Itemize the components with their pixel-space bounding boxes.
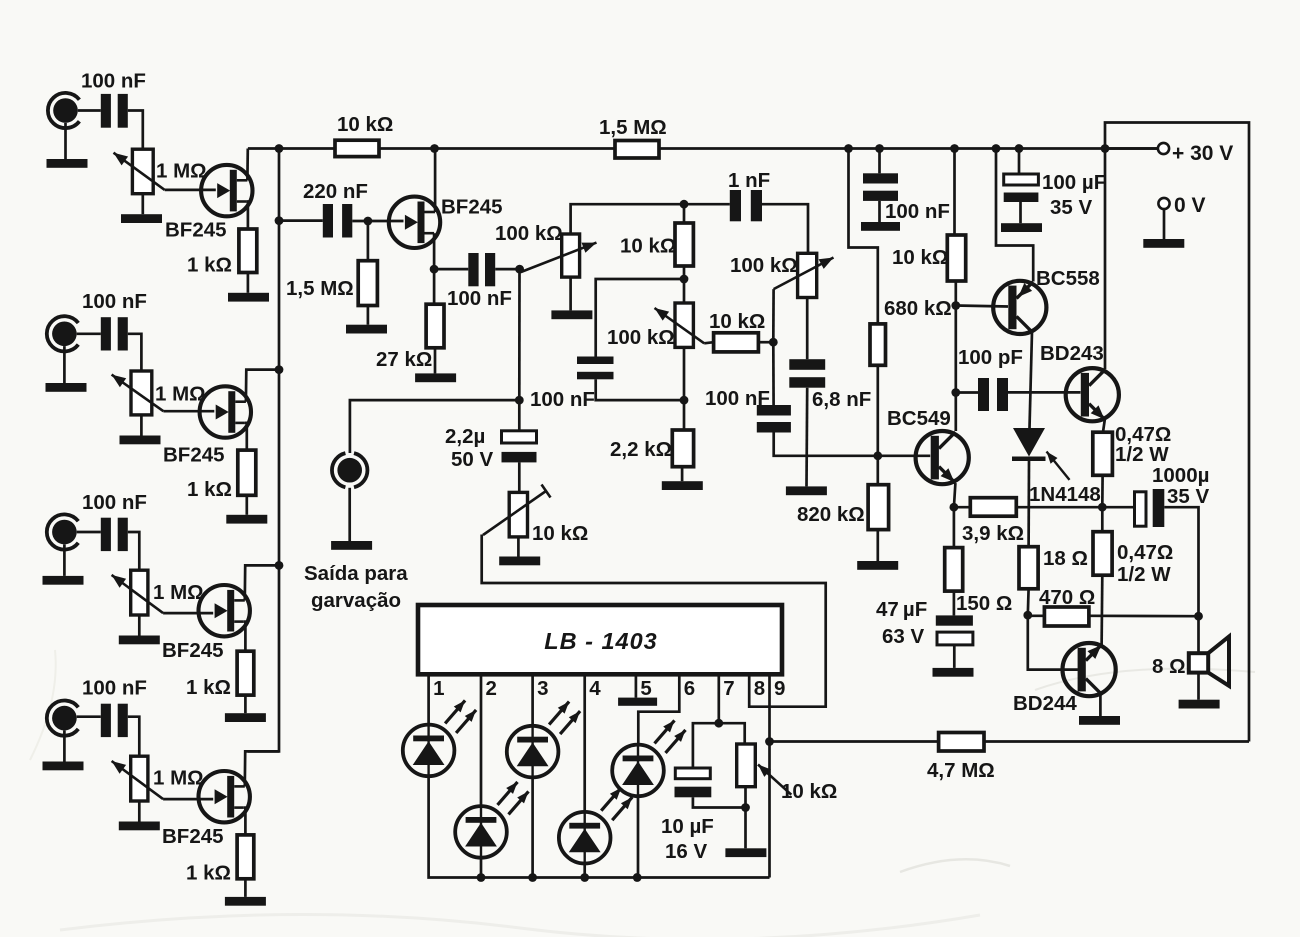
wire P6 wiper to R10 <box>704 342 713 343</box>
wire BD244 collector to ground <box>1099 693 1102 717</box>
capacitor C1 100 nF (input ch1) <box>101 94 128 128</box>
wire Q4 source to R4 <box>244 808 246 835</box>
wire C4 to potentiometer P4 <box>128 717 140 757</box>
node A (tone network input) <box>515 265 524 274</box>
node (LED4 bus) <box>580 873 589 882</box>
ground (jack J3) <box>43 576 84 585</box>
wire jack J4 to ground <box>63 730 66 761</box>
capacitor C14 100 nF (rail decoupling) <box>863 149 898 223</box>
wire BC558 collector to diode <box>1030 332 1033 428</box>
node B (10k/1nF junction) <box>680 200 689 209</box>
ground (R4) <box>225 897 266 906</box>
svg-text:470 Ω: 470 Ω <box>1039 586 1095 609</box>
diode D6 1N4148 <box>1012 428 1046 461</box>
IC U1 LB-1403 body <box>418 605 782 674</box>
resistor R20 0,47 Ω (bottom) <box>1093 532 1112 576</box>
wire R9 to node C <box>683 266 686 303</box>
wire LED5 to bus <box>637 796 640 877</box>
potentiometer P5 100 kΩ (volume) body <box>562 234 580 277</box>
svg-text:6,8 nF: 6,8 nF <box>812 388 871 411</box>
ground (P8) <box>499 557 540 566</box>
wire rail R5 to R6 <box>379 147 615 150</box>
wire LED1 to LED common bus <box>429 776 481 877</box>
wire Q5 drain to rail <box>434 149 437 213</box>
wire pin7 node to P9 <box>719 723 745 744</box>
transistor Q3 BF245 (JFET ch3) <box>199 585 250 636</box>
node (BC558 base) <box>951 301 960 310</box>
svg-text:3: 3 <box>537 677 548 700</box>
wire C13 to node H <box>693 797 746 807</box>
wire node E down to C11 <box>772 342 775 405</box>
svg-text:garvação: garvação <box>311 589 401 612</box>
wire +30V rail to terminal <box>1105 147 1158 150</box>
transistor Q5 BF245 (mixer stage) <box>389 197 440 248</box>
capacitor C8 1 nF <box>730 190 762 221</box>
resistor R6 1,5 MΩ (rail) <box>615 141 659 159</box>
potentiometer P1 wiper arrow <box>114 153 165 190</box>
wire C8 to P7 <box>762 204 808 253</box>
wire Q2 drain to mix bus <box>246 370 279 402</box>
node J (output node) <box>1098 503 1107 512</box>
wire P3 wiper to Q3 gate <box>163 612 213 615</box>
annotation arrow (1N4148) <box>1047 452 1070 480</box>
resistor R12 680 kΩ <box>870 324 886 365</box>
wire jack J2 to ground <box>63 346 66 383</box>
svg-text:100 kΩ: 100 kΩ <box>730 254 798 277</box>
wire node to R16 150 <box>953 507 956 547</box>
wire P9 to node H <box>744 787 747 808</box>
capacitor C10 6,8 nF <box>789 359 825 388</box>
ground (node H) <box>725 848 766 857</box>
svg-text:150 Ω: 150 Ω <box>956 592 1012 615</box>
wire rail to BC558 emitter <box>996 149 1033 282</box>
capacitor C2 100 nF (input ch2) <box>101 317 128 350</box>
wire C1 to potentiometer P1 <box>128 111 143 150</box>
potentiometer P1 1 MΩ body <box>132 149 153 194</box>
svg-text:0 V: 0 V <box>1174 194 1206 217</box>
ground (P3) <box>119 636 160 645</box>
ground (P2) <box>120 436 161 445</box>
potentiometer P4 1 MΩ body <box>131 756 148 801</box>
svg-text:2,2 kΩ: 2,2 kΩ <box>610 438 672 461</box>
svg-text:35 V: 35 V <box>1167 485 1209 508</box>
wire P7 to C10 <box>806 298 809 360</box>
wire P5 top to 1nF row <box>571 204 684 234</box>
ground (R3) <box>225 713 266 722</box>
svg-text:4,7 MΩ: 4,7 MΩ <box>927 759 995 782</box>
svg-text:BF245: BF245 <box>165 219 227 242</box>
potentiometer P7 wiper arrow <box>774 258 834 290</box>
LED D5 <box>612 720 685 796</box>
svg-text:27 kΩ: 27 kΩ <box>376 348 432 371</box>
svg-text:1 MΩ: 1 MΩ <box>156 160 207 183</box>
ground (0 V) <box>1143 239 1184 248</box>
resistor R18 470 Ω <box>1044 607 1089 626</box>
wire R20 to BD244 emitter <box>1100 575 1103 646</box>
wire pin 6 to LED5 <box>638 674 679 744</box>
potentiometer P3 1 MΩ body <box>131 570 148 615</box>
capacitor C17 100 uF 35 V (electrolytic) <box>1004 149 1039 224</box>
node (Q3 drain / bus) <box>275 561 284 570</box>
wire node H to ground <box>744 808 747 849</box>
svg-text:BF245: BF245 <box>441 196 503 219</box>
capacitor C16 47 uF 63 V (electrolytic) <box>936 615 973 668</box>
wire R8 to ground <box>434 348 437 374</box>
wire jack J2 to C2 <box>77 332 101 335</box>
wire R18 to speaker node <box>1089 614 1199 617</box>
transistor Q9 BD244 <box>1063 643 1116 696</box>
svg-text:100 nF: 100 nF <box>82 677 147 700</box>
svg-text:63 V: 63 V <box>882 625 924 648</box>
potentiometer P3 wiper arrow <box>112 575 164 613</box>
wire C3 to potentiometer P3 <box>128 532 140 570</box>
svg-text:100 kΩ: 100 kΩ <box>495 222 563 245</box>
ground (R11) <box>662 481 703 490</box>
svg-text:10 kΩ: 10 kΩ <box>532 522 588 545</box>
wire rail to R12 680k (jog) <box>849 149 878 324</box>
input jack J2 (RCA) <box>47 316 78 351</box>
node (bus / C5 coupling) <box>275 216 284 225</box>
resistor R13 10 kΩ (collector load) <box>947 235 965 281</box>
svg-text:100 µF: 100 µF <box>1042 171 1106 194</box>
ground (C16) <box>933 668 974 677</box>
transistor Q6 BC549 <box>916 431 969 484</box>
node E <box>769 338 778 347</box>
svg-text:Saída para: Saída para <box>304 562 408 585</box>
svg-text:LB - 1403: LB - 1403 <box>544 628 658 654</box>
potentiometer P7 100 kΩ (bass pot) body <box>798 253 817 297</box>
terminal 0 V <box>1158 198 1169 209</box>
wire C12 to P8 <box>518 462 521 492</box>
wire pin7 node to C13 <box>693 723 719 768</box>
wire jack J1 to C1 <box>78 109 101 112</box>
svg-text:50 V: 50 V <box>451 448 493 471</box>
wire rail R6 to +30V terminal <box>659 147 1158 150</box>
wire P8 to ground <box>517 537 520 557</box>
terminal +30 V <box>1158 143 1169 154</box>
wire diode cathode to R17 <box>1027 461 1030 547</box>
wire R17 to node I <box>1026 589 1029 615</box>
wire R15 to output node <box>1016 506 1134 509</box>
potentiometer P8 wiper (trimmer) <box>483 485 551 536</box>
ground (pin 5) <box>618 698 657 706</box>
wire node A down to node G <box>518 269 521 400</box>
node (LED5 bus) <box>633 873 642 882</box>
wire BD243 emitter to R19 <box>1103 420 1105 433</box>
wire C7 to node A <box>495 268 519 271</box>
node (BC558 emitter feed / rail) <box>992 144 1001 153</box>
ground (speaker) <box>1179 700 1220 709</box>
svg-text:7: 7 <box>723 677 734 700</box>
capacitor C15 100 pF <box>978 378 1008 411</box>
node (feedback node) <box>950 503 959 512</box>
wire node I to R18 <box>1028 614 1045 617</box>
resistor R4 1 kΩ (source ch4) <box>237 835 254 879</box>
capacitor C6 220 nF <box>323 204 353 238</box>
resistor R7 1,5 MΩ (gate) <box>358 261 377 306</box>
node (680k feed / rail) <box>844 144 853 153</box>
wire R10 to node E <box>758 341 773 344</box>
wire pin 7 down <box>717 674 720 723</box>
svg-text:10 kΩ: 10 kΩ <box>781 780 837 803</box>
node (Q2 drain / bus) <box>275 365 284 374</box>
wire mixer drain bus (vertical) <box>248 149 279 752</box>
svg-text:0,47Ω: 0,47Ω <box>1117 541 1173 564</box>
svg-text:1 MΩ: 1 MΩ <box>153 767 204 790</box>
resistor R15 3,9 kΩ <box>970 498 1016 517</box>
wire speaker to ground <box>1197 673 1200 700</box>
wire P1 wiper to Q1 gate <box>165 189 216 192</box>
node (pin 7) <box>714 719 723 728</box>
svg-text:BD244: BD244 <box>1013 692 1077 715</box>
wire R11 to ground <box>681 467 684 482</box>
wire C2 to potentiometer P2 <box>128 334 142 371</box>
potentiometer P2 wiper arrow <box>112 375 164 412</box>
potentiometer P9 10 kΩ (VU cal) body <box>737 744 756 787</box>
svg-text:1000µ: 1000µ <box>1152 464 1209 487</box>
node G (record tap) <box>515 396 524 405</box>
resistor R14 820 kΩ <box>868 485 889 530</box>
wire bus to C6 <box>279 219 323 222</box>
transistor Q1 BF245 (JFET ch1) <box>201 165 252 216</box>
wire pin 2 to LED2 <box>480 674 483 806</box>
wire record jack to ground <box>348 488 351 541</box>
svg-text:18 Ω: 18 Ω <box>1043 547 1088 570</box>
potentiometer P9 wiper arrow <box>758 765 791 795</box>
svg-text:BF245: BF245 <box>162 825 224 848</box>
wire R3 to ground <box>244 695 247 713</box>
svg-text:1 MΩ: 1 MΩ <box>153 581 204 604</box>
resistor R16 150 Ω <box>945 548 963 592</box>
wire pin 3 to LED3 <box>531 674 534 726</box>
wire R21 to right bus <box>984 740 1249 743</box>
resistor R5 10 kΩ (rail) <box>335 140 379 156</box>
svg-text:BD243: BD243 <box>1040 342 1104 365</box>
ground (R7) <box>346 325 387 334</box>
svg-text:1N4148: 1N4148 <box>1029 483 1101 506</box>
svg-text:5: 5 <box>640 677 651 700</box>
svg-text:1,5 MΩ: 1,5 MΩ <box>286 277 354 300</box>
svg-text:BF245: BF245 <box>162 639 224 662</box>
potentiometer P5 wiper arrow <box>521 243 597 272</box>
wire C10 to ground bar <box>805 388 808 487</box>
input jack J1 (RCA) <box>48 93 79 128</box>
wire C11 to BC549 base wire <box>774 433 931 456</box>
wire jack J3 to C3 <box>77 531 101 534</box>
node (LED2 bus) <box>477 873 486 882</box>
svg-text:16 V: 16 V <box>665 840 707 863</box>
wire pin 4 to LED4 <box>583 674 586 812</box>
label Saida para garvacao <box>304 562 408 612</box>
resistor R21 4,7 MΩ <box>939 733 984 752</box>
node (C14 / rail) <box>875 144 884 153</box>
svg-text:100 pF: 100 pF <box>958 346 1023 369</box>
wire node F to R14 <box>876 456 879 485</box>
svg-text:100 nF: 100 nF <box>447 287 512 310</box>
capacitor C13 10 uF 16 V (electrolytic) <box>675 768 712 797</box>
svg-text:BC549: BC549 <box>887 407 951 430</box>
capacitor C11 100 nF (horizontal plates) <box>757 405 791 433</box>
node (LED3 bus) <box>528 873 537 882</box>
wire node D to R11 <box>683 400 686 430</box>
wire LED2 to bus <box>480 858 483 878</box>
wire node I to BD244 base <box>1028 615 1078 670</box>
node (bus / +30V rail) <box>275 144 284 153</box>
wire BC549 emitter down <box>954 483 956 507</box>
transistor Q8 BD243 <box>1066 368 1119 421</box>
transistor Q4 BF245 (JFET ch4) <box>199 771 250 822</box>
svg-text:6: 6 <box>684 677 695 700</box>
input jack J3 (RCA) <box>47 514 78 549</box>
wire Q1 drain to +30V rail <box>246 149 249 181</box>
wire R13 to BC549 collector <box>954 281 957 431</box>
ground (R14) <box>857 561 898 570</box>
wire P3 to ground <box>138 615 141 636</box>
svg-text:1: 1 <box>433 677 444 700</box>
wire Q1 source to R1 <box>246 202 248 230</box>
capacitor C3 100 nF (input ch3) <box>101 518 128 551</box>
node (100pF tap) <box>951 388 960 397</box>
resistor R19 0,47 Ω (top) <box>1093 432 1113 475</box>
ground (jack J4) <box>43 762 84 771</box>
node D <box>680 396 689 405</box>
ground (jack J1) <box>47 159 88 168</box>
svg-text:BF245: BF245 <box>163 444 225 467</box>
wire Q3 source to R3 <box>244 622 246 652</box>
svg-text:10 kΩ: 10 kΩ <box>620 235 676 258</box>
node F (BC549 base node) <box>873 451 882 460</box>
transistor Q2 BF245 (JFET ch2) <box>200 386 251 437</box>
wire P6 to node D <box>683 347 686 400</box>
resistor R10 10 kΩ (wiper series) <box>714 333 759 352</box>
svg-text:10 kΩ: 10 kΩ <box>337 113 393 136</box>
svg-text:4: 4 <box>589 677 601 700</box>
wire R12 to node F <box>876 365 879 456</box>
svg-text:+ 30 V: + 30 V <box>1172 142 1233 165</box>
capacitor C9 100 nF (horizontal plates) <box>577 357 614 380</box>
svg-text:9: 9 <box>774 677 785 700</box>
wire R1 to ground <box>247 273 250 293</box>
capacitor C4 100 nF (input ch4) <box>101 704 128 737</box>
wire pin9 node to R21 <box>770 740 939 743</box>
svg-text:100 nF: 100 nF <box>530 388 595 411</box>
svg-text:2: 2 <box>486 677 497 700</box>
svg-text:820 kΩ: 820 kΩ <box>797 503 865 526</box>
wire P8 wiper to LB-1403 pin 8 <box>482 535 826 707</box>
wire node E up to P7 wiper <box>772 289 775 342</box>
svg-text:8: 8 <box>754 677 765 700</box>
resistor R9 10 kΩ (treble) <box>675 223 693 266</box>
wire tap to C15 <box>956 391 978 394</box>
potentiometer P8 10 kΩ (record level) body <box>509 492 527 537</box>
LED D4 <box>559 788 632 864</box>
wire Q4 drain to mix bus <box>245 751 279 786</box>
wire BD243 collector to rail <box>1104 149 1107 370</box>
svg-text:47 µF: 47 µF <box>876 598 927 621</box>
wire LED common bus <box>481 876 770 879</box>
ground (R8) <box>415 373 456 382</box>
wire jack J1 to ground <box>64 123 67 159</box>
LED D3 <box>507 702 580 778</box>
wire Q2 source to R2 <box>245 423 247 450</box>
svg-text:1 nF: 1 nF <box>728 169 770 192</box>
node (R13 / rail) <box>950 144 959 153</box>
svg-text:1 kΩ: 1 kΩ <box>186 862 231 885</box>
wire R7 to ground <box>367 306 370 325</box>
svg-text:1,5 MΩ: 1,5 MΩ <box>599 116 667 139</box>
wire feedback node to R15 <box>954 506 970 509</box>
svg-text:1 kΩ: 1 kΩ <box>187 478 232 501</box>
svg-text:3,9 kΩ: 3,9 kΩ <box>962 522 1024 545</box>
wire Q5 source to R8 <box>433 269 436 304</box>
svg-text:8 Ω: 8 Ω <box>1152 655 1186 678</box>
capacitor C7 100 nF (coupling) <box>468 253 495 286</box>
wire pin 9 to bus <box>768 674 771 877</box>
wire P4 wiper to Q4 gate <box>163 798 213 801</box>
svg-text:100 nF: 100 nF <box>82 290 147 313</box>
wire C6 to Q5 gate <box>352 220 403 223</box>
wire R2 to ground <box>245 495 248 515</box>
resistor R11 2,2 kΩ <box>672 430 693 467</box>
wire P1 to ground <box>141 194 144 215</box>
wire LED3 to bus <box>531 777 534 877</box>
wire node C to C9 (left jog) <box>596 279 684 357</box>
svg-text:35 V: 35 V <box>1050 196 1092 219</box>
wire 0V terminal to ground <box>1163 209 1166 239</box>
ground (jack J2) <box>46 383 87 392</box>
resistor R8 27 kΩ <box>426 304 444 348</box>
ground (C17) <box>1001 223 1042 232</box>
potentiometer P4 wiper arrow <box>112 761 164 799</box>
svg-text:100 nF: 100 nF <box>81 70 146 93</box>
wire rail to R13 <box>953 149 956 236</box>
node (Q5 source) <box>430 265 439 274</box>
svg-text:1 kΩ: 1 kΩ <box>186 676 231 699</box>
wire +30V rail left segment <box>248 147 335 150</box>
wire C9 to node D <box>596 379 682 400</box>
svg-text:10 kΩ: 10 kΩ <box>892 246 948 269</box>
wire node G to C12 <box>518 400 521 431</box>
svg-text:1 kΩ: 1 kΩ <box>187 254 232 277</box>
node (C17 / rail) <box>1015 144 1024 153</box>
svg-text:100 kΩ: 100 kΩ <box>607 326 675 349</box>
svg-text:1/2 W: 1/2 W <box>1115 443 1169 466</box>
ground (R2) <box>226 515 267 524</box>
svg-text:680 kΩ: 680 kΩ <box>884 297 952 320</box>
wire P2 to ground <box>140 415 143 436</box>
capacitor C18 1000 uF 35 V (output electrolytic) <box>1135 489 1165 527</box>
transistor Q7 BC558 <box>993 281 1046 334</box>
LED D1 <box>403 700 476 776</box>
wire top-right supply loop <box>1105 123 1249 742</box>
wire C18 to speaker <box>1164 507 1198 653</box>
potentiometer P6 100 kΩ (treble pot) body <box>675 303 693 347</box>
node (BD243 collector / rail) <box>1101 144 1110 153</box>
node (Q5 gate / R7) <box>364 217 373 226</box>
wire R14 to ground <box>876 530 879 561</box>
wire base to BC558 <box>956 306 1008 307</box>
wire jack J3 to ground <box>63 544 66 576</box>
wire node G to record jack <box>350 400 519 453</box>
node (pin 9 / VU feed) <box>765 737 774 746</box>
svg-text:100 nF: 100 nF <box>885 200 950 223</box>
wire jack J4 to C4 <box>77 715 101 718</box>
ground (R1) <box>228 293 269 302</box>
speaker LS1 8 ohm <box>1189 637 1229 686</box>
wire LED4 to bus <box>583 864 586 878</box>
svg-text:2,2µ: 2,2µ <box>445 425 485 448</box>
resistor R1 1 kΩ (source ch1) <box>239 229 257 273</box>
